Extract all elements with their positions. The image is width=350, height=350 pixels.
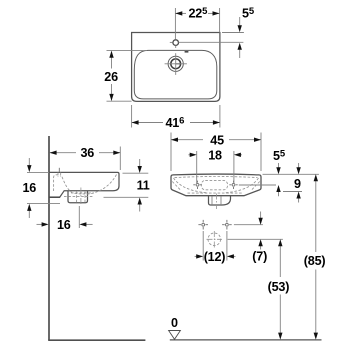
ext of rim top edge xyxy=(222,32,244,34)
arrow 36 left xyxy=(50,151,57,155)
dim line upper part xyxy=(315,180,317,252)
arrow 5.5 up xyxy=(238,43,242,50)
arrow 41.6 left xyxy=(132,120,139,124)
arrow (53) down xyxy=(278,333,282,340)
arrow 16B left-pointing xyxy=(79,222,86,226)
dim line lower part xyxy=(111,84,113,101)
dim line upper part xyxy=(111,52,113,69)
dim line upper part xyxy=(279,245,281,277)
trap centerline front xyxy=(215,194,217,210)
bowl bottom wide dashed line xyxy=(188,192,243,194)
ext line left from cross xyxy=(202,231,204,261)
ext line top (bowl top edge) xyxy=(107,50,148,52)
arrow 9 down xyxy=(296,167,300,174)
svg-text:26: 26 xyxy=(104,70,118,84)
bolt hole right xyxy=(229,181,237,189)
front view outline xyxy=(171,174,261,196)
side view bottom near-wall thick line xyxy=(49,196,60,198)
drain outlet dashed circle xyxy=(208,233,221,246)
ext line right xyxy=(119,147,121,171)
svg-text:18: 18 xyxy=(208,148,222,162)
dim line left part xyxy=(171,139,203,141)
svg-text:(12): (12) xyxy=(204,250,226,264)
faucet hole dashed sides xyxy=(58,173,61,177)
arrow 45 left xyxy=(171,138,178,142)
ext line left xyxy=(196,151,198,183)
shaft above xyxy=(298,163,300,168)
faucet centerline short dash below circle xyxy=(175,46,177,49)
drain outer circle xyxy=(168,56,183,71)
svg-text:0: 0 xyxy=(171,316,178,330)
arrow (7) up xyxy=(258,239,262,246)
drain horizontal centerline xyxy=(165,63,187,65)
arrow 45 right xyxy=(254,138,261,142)
arrow 9 up xyxy=(296,192,300,199)
arrow 26 down xyxy=(109,94,113,101)
shaft below xyxy=(278,191,280,196)
dim line left part xyxy=(50,152,76,154)
ext line top xyxy=(123,172,149,174)
inner bowl dashed left diagonal 2 xyxy=(172,182,181,191)
dimension 9 xyxy=(263,163,319,203)
dim line left part xyxy=(175,12,186,14)
arrow 22.5 right xyxy=(213,11,220,15)
arrow 16L up xyxy=(27,204,31,211)
arrow (85) up xyxy=(314,174,318,181)
svg-text:36: 36 xyxy=(81,146,95,160)
dimension 18 xyxy=(188,151,242,183)
svg-text:416: 416 xyxy=(166,116,185,131)
shaft right xyxy=(240,154,242,156)
svg-text:(85): (85) xyxy=(304,254,326,268)
dimension 5.5 top right xyxy=(179,17,244,58)
faucet hole tick above deck xyxy=(58,168,60,172)
rim top ext line long xyxy=(263,173,319,175)
faucet hole left tick xyxy=(170,41,173,43)
bolt hole left xyxy=(193,181,201,189)
top view inner bowl outline xyxy=(134,50,217,99)
ext line right xyxy=(233,151,235,183)
shaft left xyxy=(195,255,198,257)
front trap outline xyxy=(209,196,231,205)
ext line right from cross xyxy=(226,231,228,261)
arrow 5.5R up xyxy=(276,185,280,192)
dimension (53) xyxy=(279,245,281,334)
bowl profile dashed left curve xyxy=(62,177,82,194)
floor line right xyxy=(170,339,322,341)
svg-text:9: 9 xyxy=(294,177,301,191)
svg-text:(53): (53) xyxy=(268,280,290,294)
inner bowl dashed right sweep xyxy=(225,178,259,193)
arrow 5.5R down xyxy=(276,167,280,174)
dim line right part xyxy=(190,122,220,124)
bowl profile dashed right big curve xyxy=(82,175,117,194)
arrow 18 right xyxy=(234,153,241,157)
arrow 18 left xyxy=(190,153,197,157)
inner bowl dashed left sweep xyxy=(174,178,208,193)
arrow shaft below xyxy=(239,50,241,59)
dimension 16 bottom xyxy=(37,206,93,228)
shaft below xyxy=(28,210,30,218)
arrow (53) up xyxy=(278,239,282,246)
dimension (12) xyxy=(195,231,236,261)
arrow 16B right-pointing xyxy=(42,222,49,226)
bowl bottom dashed rounded rect xyxy=(201,180,227,189)
top view outer rim outline xyxy=(132,33,220,102)
dimension 22.5 top xyxy=(175,8,219,33)
svg-text:16: 16 xyxy=(57,218,71,232)
shaft left xyxy=(188,154,190,156)
arrow (7) down xyxy=(258,218,262,225)
shaft above xyxy=(139,159,141,167)
drain vertical centerline xyxy=(175,53,177,75)
ref line bottom (drain level) xyxy=(228,238,283,240)
ext line right xyxy=(219,105,221,128)
shaft right xyxy=(233,255,236,257)
bolt cross right xyxy=(222,220,232,230)
ext line bottom xyxy=(104,196,149,198)
ext line left xyxy=(131,105,133,128)
shaft below xyxy=(139,204,141,212)
overflow slot mark xyxy=(185,51,189,53)
trap inner dashed verticals xyxy=(77,191,85,202)
side view trap outline xyxy=(68,191,88,203)
arrow 11 up xyxy=(138,198,142,205)
arrow (12) left xyxy=(196,254,203,258)
shaft right xyxy=(85,223,92,225)
drain outlet centerlines xyxy=(207,231,223,248)
arrow shaft above xyxy=(239,17,241,26)
arrow 26 up xyxy=(109,51,113,58)
shaft below xyxy=(298,198,300,203)
ext line at drain center xyxy=(78,206,80,228)
arrow 36 right xyxy=(113,151,120,155)
shaft left outside wall xyxy=(37,223,43,225)
inner bowl dashed top line xyxy=(175,177,258,178)
dimension 16 left xyxy=(27,158,60,218)
svg-text:45: 45 xyxy=(210,133,224,147)
side view outline xyxy=(49,172,119,197)
svg-text:16: 16 xyxy=(23,181,37,195)
ext line bottom (rim front) xyxy=(107,100,132,102)
arrow 41.6 right xyxy=(213,120,220,124)
shaft above xyxy=(278,163,280,168)
shaft below xyxy=(260,245,262,249)
dimension 11 right of side view xyxy=(104,159,149,212)
ext line bottom xyxy=(27,203,60,205)
ext line bottom xyxy=(239,184,276,186)
dimension 5.5 right of front view xyxy=(239,163,279,196)
faucet hole circle xyxy=(173,40,179,46)
ext of faucet centerline xyxy=(179,41,244,43)
svg-text:(7): (7) xyxy=(252,249,267,263)
dim line right part xyxy=(229,139,261,141)
drain radius mark xyxy=(176,63,181,65)
arrow (12) right xyxy=(227,254,234,258)
dim line right part xyxy=(208,12,220,14)
ext line right (rim corner) xyxy=(219,8,221,33)
trap inner verticals xyxy=(212,196,221,204)
inner bowl dashed right diagonal 2 xyxy=(251,182,260,191)
dimension (7) xyxy=(228,212,283,250)
ext line right xyxy=(260,133,262,172)
arrow 16L down xyxy=(27,165,31,172)
shaft above xyxy=(28,158,30,166)
arrow 11 down xyxy=(138,166,142,173)
ext line top xyxy=(27,171,49,173)
faucet vertical centerline below dim xyxy=(174,8,176,40)
drain inner circle xyxy=(171,59,181,69)
dim line lower part xyxy=(279,295,281,334)
dimension 45 xyxy=(171,133,261,172)
arrow 5.5 down xyxy=(238,25,242,32)
dimension 41.6 bottom of top view xyxy=(132,105,220,128)
trap centerline xyxy=(80,188,82,206)
svg-text:55: 55 xyxy=(242,6,255,21)
dimension (85) xyxy=(315,180,317,334)
dim line left part xyxy=(132,122,163,124)
floor line left thick xyxy=(48,339,145,341)
dim line right part xyxy=(99,152,120,154)
ref line for 9 bottom xyxy=(283,191,302,193)
svg-text:11: 11 xyxy=(137,178,150,192)
shaft above xyxy=(260,212,262,219)
arrow 22.5 left xyxy=(175,11,182,15)
ext line left xyxy=(170,133,172,172)
hidden drain flange dashed horizontals xyxy=(64,193,94,197)
dimension 26 left of top view xyxy=(107,51,148,102)
dim line lower part xyxy=(315,270,317,334)
bolt cross left xyxy=(198,220,208,230)
wall line xyxy=(48,136,50,340)
datum triangle xyxy=(169,331,181,340)
overflow channel dashed outline xyxy=(54,175,61,191)
svg-text:225: 225 xyxy=(189,6,209,21)
dimension 36 xyxy=(50,147,121,171)
ref line top (bolt level) xyxy=(234,224,263,226)
arrow (85) down xyxy=(314,333,318,340)
svg-text:55: 55 xyxy=(273,149,286,164)
